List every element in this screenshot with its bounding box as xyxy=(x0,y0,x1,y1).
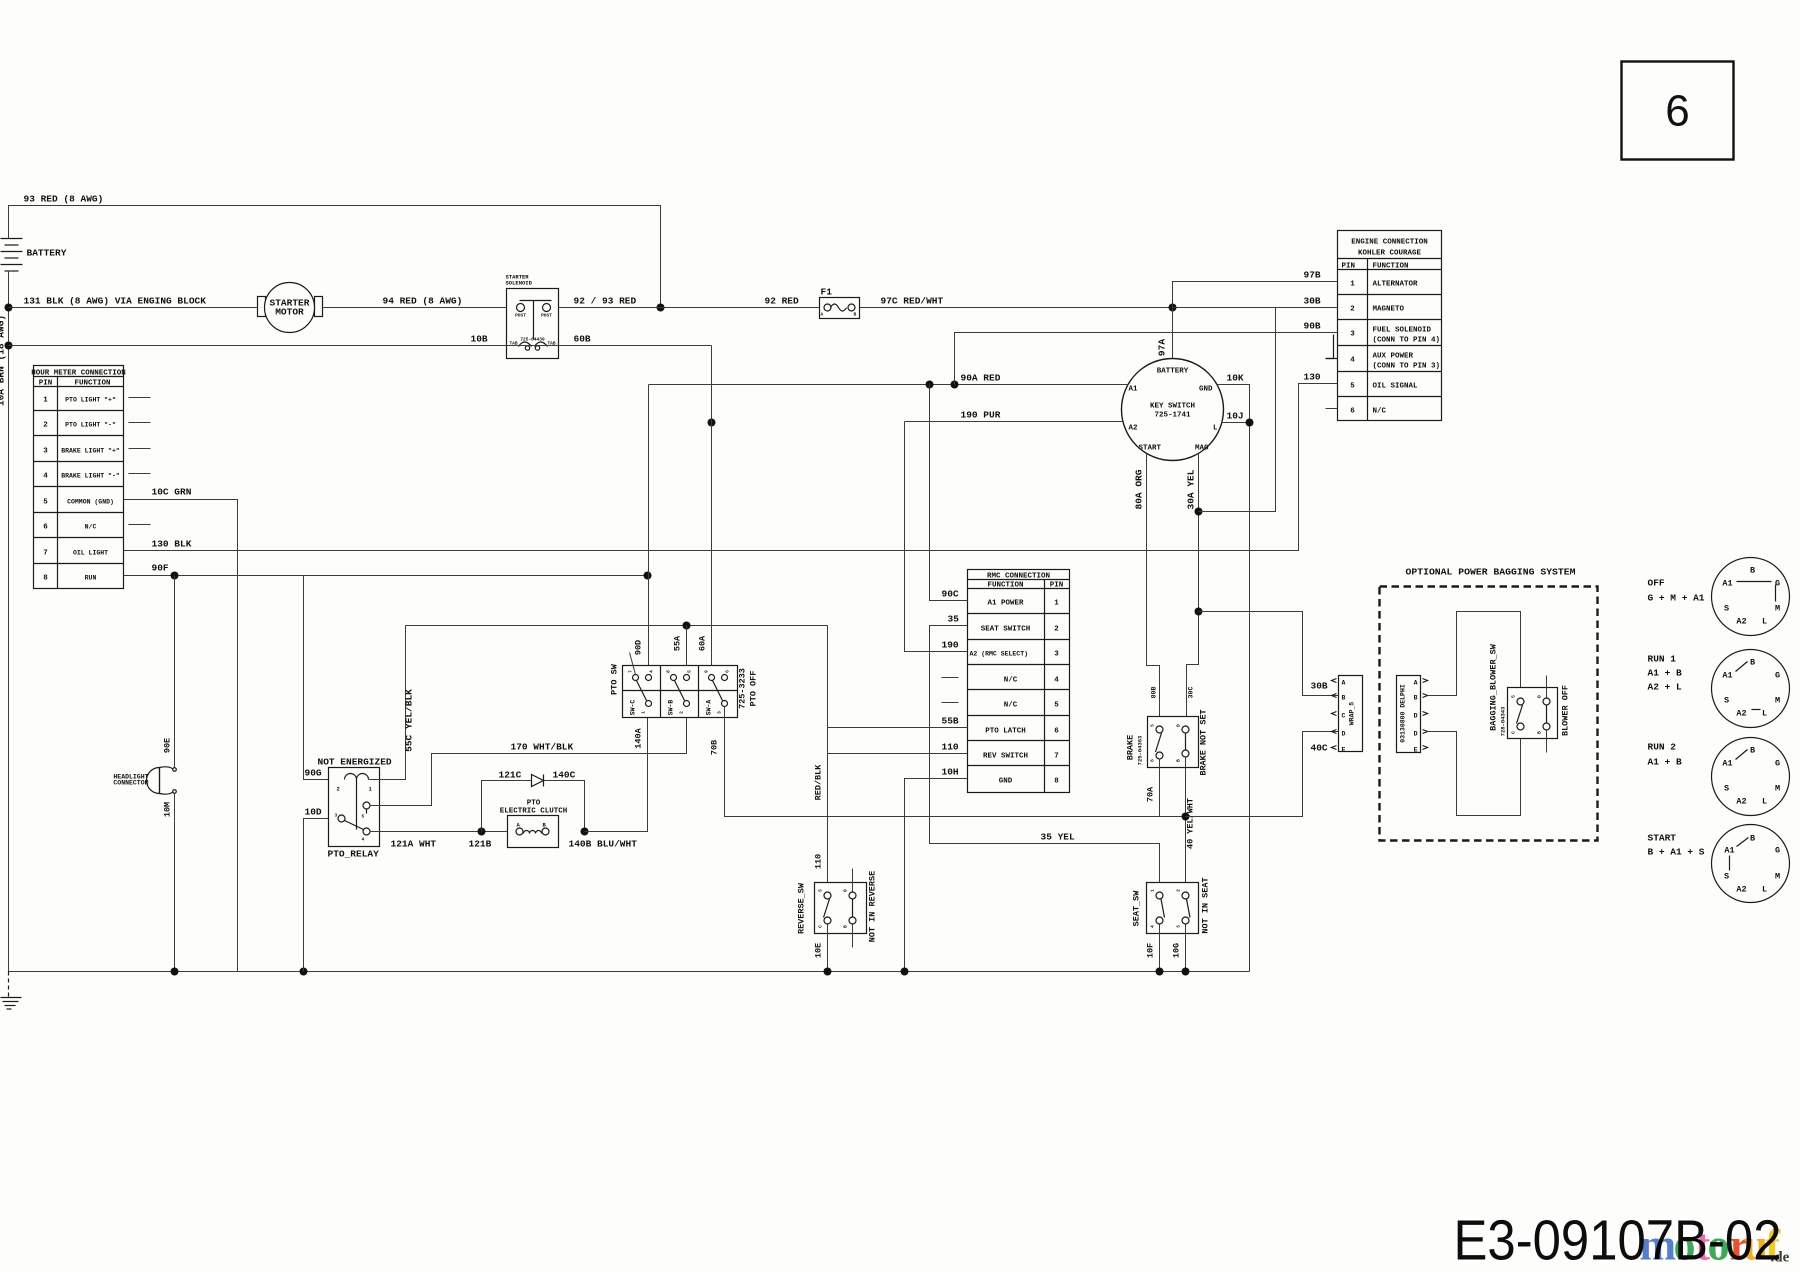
svg-text:A2 (RMC SELECT): A2 (RMC SELECT) xyxy=(970,651,1029,658)
svg-text:140B BLU/WHT: 140B BLU/WHT xyxy=(569,839,638,850)
svg-text:G + M + A1: G + M + A1 xyxy=(1648,593,1705,604)
wire 90C to RMC pin 1 xyxy=(930,385,968,601)
svg-text:97C RED/WHT: 97C RED/WHT xyxy=(881,296,944,307)
svg-text:2: 2 xyxy=(337,786,340,793)
wire 70B PTO switch pin 3 to brake switch xyxy=(710,707,1160,817)
wire 10G seat switch to ground rail xyxy=(1172,925,1186,972)
svg-text:30B: 30B xyxy=(1311,681,1328,692)
wire blower switch stub top xyxy=(1546,676,1548,698)
svg-text:G: G xyxy=(1775,671,1780,681)
switch S3 brake switch 725-04363 xyxy=(1126,709,1209,775)
svg-text:10F: 10F xyxy=(1146,943,1156,958)
svg-text:10A BRN (18 AWG): 10A BRN (18 AWG) xyxy=(0,315,7,406)
svg-text:725-3233: 725-3233 xyxy=(738,668,748,709)
wire RMC pin 4 N/C stub xyxy=(942,677,959,679)
svg-text:D: D xyxy=(843,889,849,892)
svg-text:5: 5 xyxy=(687,670,693,673)
wire bagging pin D to blower switch xyxy=(1428,731,1521,816)
svg-text:110: 110 xyxy=(942,742,959,753)
svg-text:C: C xyxy=(1511,731,1517,734)
svg-text:3: 3 xyxy=(1176,925,1182,928)
wire 10B battery negative to solenoid tab xyxy=(9,334,712,346)
key position diagram RUN 2 xyxy=(1648,738,1790,816)
key position diagram START xyxy=(1648,825,1790,903)
fuse F1 xyxy=(820,287,860,319)
svg-text:70A: 70A xyxy=(1146,786,1156,802)
svg-text:8: 8 xyxy=(666,670,672,673)
svg-text:SEAT_SW: SEAT_SW xyxy=(1132,890,1142,927)
motor M1 starter motor xyxy=(258,283,323,333)
svg-text:121A WHT: 121A WHT xyxy=(391,839,437,850)
wire ground rail xyxy=(9,971,1250,973)
svg-text:L: L xyxy=(1762,617,1767,627)
svg-text:1: 1 xyxy=(1150,889,1156,892)
node junction on 60A wire xyxy=(708,419,716,427)
wire 90E to headlight connector xyxy=(163,576,175,769)
svg-text:5: 5 xyxy=(1054,702,1059,710)
switch S1 key switch 725-1741 xyxy=(1122,359,1224,461)
svg-text:B: B xyxy=(854,312,857,318)
svg-text:40 YEL/WHT: 40 YEL/WHT xyxy=(1186,798,1196,849)
wire magneto branch to 30B line xyxy=(1199,308,1276,512)
svg-text:6: 6 xyxy=(1054,728,1059,736)
svg-text:10B: 10B xyxy=(471,334,488,345)
svg-text:D: D xyxy=(1414,731,1418,738)
svg-text:5: 5 xyxy=(362,814,365,820)
svg-text:m: m xyxy=(1640,1221,1677,1270)
svg-text:725-04363: 725-04363 xyxy=(1137,735,1144,765)
svg-text:D: D xyxy=(1176,724,1182,727)
svg-text:BLOWER OFF: BLOWER OFF xyxy=(1561,685,1571,736)
svg-text:2: 2 xyxy=(1054,626,1059,634)
svg-text:40C: 40C xyxy=(1311,743,1328,754)
svg-text:S: S xyxy=(1724,784,1729,794)
svg-text:A2: A2 xyxy=(1736,797,1746,807)
svg-text:110: 110 xyxy=(814,854,824,869)
svg-text:FUNCTION: FUNCTION xyxy=(987,582,1023,590)
pin 2 xyxy=(684,701,690,707)
wire 60A solenoid tab to PTO switch pin 9 xyxy=(698,346,712,675)
svg-text:AUX POWER: AUX POWER xyxy=(1373,353,1414,361)
key position diagram RUN 1 xyxy=(1648,650,1790,728)
svg-text:4: 4 xyxy=(43,473,48,481)
wire run1 A2 to L xyxy=(1752,709,1761,711)
wire 55C YEL/BLK relay coil to PTO latch line xyxy=(369,626,415,780)
svg-text:S: S xyxy=(1724,604,1729,614)
svg-text:90C: 90C xyxy=(942,589,959,600)
svg-text:PTO OFF: PTO OFF xyxy=(749,671,759,707)
svg-text:A: A xyxy=(1414,680,1418,687)
node 90E junction xyxy=(171,572,179,580)
solenoid L1 PTO electric clutch xyxy=(500,800,568,848)
node headlight ground junction xyxy=(171,968,179,976)
svg-text:90F: 90F xyxy=(152,563,169,574)
svg-text:COMMON (GND): COMMON (GND) xyxy=(67,499,114,506)
wire 10E reverse switch to ground rail xyxy=(814,925,828,972)
wire 170 WHT/BLK relay pin 5 to PTO switch pin 2 xyxy=(370,707,687,806)
svg-text:BAGGING_BLOWER_SW: BAGGING_BLOWER_SW xyxy=(1489,643,1499,731)
wire 90G 90 net to PTO relay coil xyxy=(304,576,345,780)
wire 30B branch to WRAP_5 pin B xyxy=(1199,612,1339,696)
svg-text:6: 6 xyxy=(43,524,48,532)
page number box 6 xyxy=(1622,62,1734,160)
svg-text:A2: A2 xyxy=(1736,885,1746,895)
svg-text:CONNECTOR: CONNECTOR xyxy=(113,780,148,787)
svg-text:35: 35 xyxy=(948,614,960,625)
svg-text:B: B xyxy=(1750,566,1755,576)
svg-text:START: START xyxy=(1139,445,1162,453)
svg-text:MOTOR: MOTOR xyxy=(275,307,304,318)
wire bagging pin B to blower switch xyxy=(1428,612,1521,698)
pin 5 xyxy=(684,675,690,681)
svg-text:A: A xyxy=(821,312,824,318)
node 121B junction xyxy=(478,828,486,836)
svg-text:10K: 10K xyxy=(1227,373,1244,384)
pin 1 xyxy=(646,701,652,707)
wire 10H RMC pin 8 to ground rail xyxy=(905,767,968,972)
svg-text:55B: 55B xyxy=(942,716,959,727)
svg-text:6: 6 xyxy=(725,670,731,673)
wire 110 RMC pin 7 to reverse switch xyxy=(814,626,968,892)
svg-text:D: D xyxy=(1414,713,1418,720)
wire run1 A1 to B xyxy=(1736,662,1748,672)
svg-text:9: 9 xyxy=(704,670,710,673)
wire reverse switch nc stub bottom xyxy=(852,925,854,948)
svg-text:5: 5 xyxy=(1150,724,1156,727)
svg-text:L: L xyxy=(1213,425,1218,433)
svg-text:130: 130 xyxy=(1304,372,1321,383)
wire 55A to PTO switch SW-B pin 5 xyxy=(673,626,687,675)
svg-text:REVERSE_SW: REVERSE_SW xyxy=(797,882,807,934)
pin 9 xyxy=(709,675,715,681)
node 140B junction xyxy=(581,828,589,836)
wire RMC pin 5 N/C stub xyxy=(942,702,959,704)
node 40 junction xyxy=(1182,813,1190,821)
svg-text:N/C: N/C xyxy=(1004,702,1018,710)
svg-text:140C: 140C xyxy=(553,770,576,781)
svg-text:7: 7 xyxy=(628,670,634,673)
wire 30A YEL key switch MAG to brake switch xyxy=(1186,454,1199,726)
wire blower switch stub bottom xyxy=(1546,731,1548,753)
svg-text:A1 POWER: A1 POWER xyxy=(987,600,1024,608)
svg-text:OPTIONAL POWER BAGGING SYSTEM: OPTIONAL POWER BAGGING SYSTEM xyxy=(1406,567,1576,578)
svg-text:A1: A1 xyxy=(1722,671,1732,681)
svg-text:4: 4 xyxy=(1054,677,1059,685)
wire 90A RED key switch A1 xyxy=(649,373,1129,385)
svg-text:BRAKE: BRAKE xyxy=(1126,735,1136,761)
wire 40C to WRAP_5 pin D xyxy=(1186,732,1339,817)
wire 90F hour meter run to 90 net xyxy=(124,563,648,576)
wire 55B RMC pin 6 to latch line xyxy=(828,716,968,728)
wire 140B BLU/WHT clutch to PTO switch pin 1 xyxy=(569,707,648,850)
svg-text:G: G xyxy=(1775,759,1780,769)
svg-text:90A RED: 90A RED xyxy=(961,373,1001,384)
svg-text:728-04343: 728-04343 xyxy=(1500,706,1507,736)
svg-text:92 RED: 92 RED xyxy=(765,296,800,307)
svg-text:10J: 10J xyxy=(1227,411,1244,422)
svg-text:FUEL SOLENOID: FUEL SOLENOID xyxy=(1373,327,1432,335)
svg-text:o: o xyxy=(1674,1221,1696,1270)
svg-text:SEAT SWITCH: SEAT SWITCH xyxy=(981,626,1031,634)
diode D1 flyback 121C 140C xyxy=(482,770,585,832)
svg-text:B: B xyxy=(1537,731,1543,734)
svg-text:30C: 30C xyxy=(1188,687,1195,699)
relay K1 starter solenoid xyxy=(506,274,559,359)
svg-text:A1: A1 xyxy=(1722,759,1732,769)
svg-text:.de: .de xyxy=(1771,1250,1790,1266)
connector J2 engine connection table KOHLER COURAGE xyxy=(1326,231,1442,421)
svg-text:M: M xyxy=(1775,604,1780,614)
svg-text:140A: 140A xyxy=(634,727,644,748)
svg-text:70B: 70B xyxy=(710,740,720,755)
svg-text:N/C: N/C xyxy=(1004,677,1018,685)
svg-text:A1: A1 xyxy=(1724,846,1734,856)
svg-text:725-1741: 725-1741 xyxy=(1154,412,1191,420)
wire 131 BLK (8 AWG) VIA ENGING BLOCK xyxy=(9,296,258,308)
svg-text:6: 6 xyxy=(1150,759,1156,762)
svg-text:WRAP_5: WRAP_5 xyxy=(1349,702,1356,726)
svg-text:N/C: N/C xyxy=(1373,408,1387,416)
node 30B junction to wrap connector xyxy=(1195,608,1203,616)
connector P3 headlight connector xyxy=(113,767,176,794)
key position diagram OFF xyxy=(1648,558,1790,636)
svg-text:35 YEL: 35 YEL xyxy=(1041,832,1076,843)
svg-text:PTO LIGHT "+": PTO LIGHT "+" xyxy=(65,397,116,404)
svg-text:80A ORG: 80A ORG xyxy=(1134,469,1145,509)
svg-text:POST: POST xyxy=(541,313,552,319)
svg-text:90G: 90G xyxy=(305,768,322,779)
connector P5 WRAP_5 xyxy=(1332,676,1363,754)
svg-text:10M: 10M xyxy=(163,802,173,817)
svg-text:E: E xyxy=(1342,747,1346,754)
svg-text:6: 6 xyxy=(1665,87,1689,136)
battery BT1 xyxy=(1,239,67,272)
svg-text:90E: 90E xyxy=(163,738,173,753)
svg-text:B + A1 + S: B + A1 + S xyxy=(1648,847,1705,858)
svg-text:MAG: MAG xyxy=(1195,445,1209,453)
svg-text:121B: 121B xyxy=(469,839,492,850)
svg-text:4: 4 xyxy=(649,670,655,673)
switch S2 PTO_SW 725-3233 xyxy=(610,653,759,718)
svg-text:1: 1 xyxy=(641,711,647,714)
wire 190 RMC pin 3 xyxy=(905,422,968,652)
svg-text:B: B xyxy=(1176,759,1182,762)
pin 4 xyxy=(646,675,652,681)
wire start A1 to S xyxy=(1729,856,1731,871)
svg-text:NOT ENERGIZED: NOT ENERGIZED xyxy=(318,757,392,768)
wire 80A ORG key switch START to brake switch xyxy=(1134,454,1160,726)
svg-text:4: 4 xyxy=(1350,357,1355,365)
svg-text:03130800 DELPHI: 03130800 DELPHI xyxy=(1400,684,1407,743)
svg-text:F1: F1 xyxy=(821,287,833,298)
wire 130 engine pin 5 to hour meter oil light xyxy=(124,372,1338,551)
pin 8 xyxy=(671,675,677,681)
svg-text:NOT IN SEAT: NOT IN SEAT xyxy=(1201,877,1211,933)
wire 97A 97B key switch battery to engine pin 1 xyxy=(1157,270,1338,359)
svg-text:B: B xyxy=(1750,834,1755,844)
pin 6 xyxy=(722,675,728,681)
svg-text:94 RED (8 AWG): 94 RED (8 AWG) xyxy=(383,296,463,307)
svg-text:A1: A1 xyxy=(1722,579,1732,589)
svg-text:B: B xyxy=(1750,746,1755,756)
svg-text:7: 7 xyxy=(43,550,48,558)
svg-text:PTO: PTO xyxy=(527,800,541,808)
svg-text:C: C xyxy=(1342,713,1346,720)
ground xyxy=(1,972,22,1010)
node battery negative junction xyxy=(5,304,13,312)
node 10G ground junction xyxy=(1182,968,1190,976)
svg-text:(CONN TO PIN 4): (CONN TO PIN 4) xyxy=(1373,337,1441,345)
svg-text:o: o xyxy=(1708,1221,1730,1270)
svg-text:131 BLK (8 AWG) VIA ENGING BLO: 131 BLK (8 AWG) VIA ENGING BLOCK xyxy=(24,296,207,307)
svg-text:PIN: PIN xyxy=(39,380,53,388)
svg-text:PTO LIGHT "-": PTO LIGHT "-" xyxy=(65,422,116,429)
wire 121A WHT relay pin 4 to clutch xyxy=(370,832,516,850)
node junction 92/93 RED xyxy=(657,304,665,312)
svg-text:7: 7 xyxy=(1054,753,1059,761)
svg-text:ALTERNATOR: ALTERNATOR xyxy=(1373,281,1419,289)
switch S4 seat switch xyxy=(1132,877,1211,933)
wire 10F seat switch to ground rail xyxy=(1146,925,1160,972)
svg-text:FUNCTION: FUNCTION xyxy=(74,380,110,388)
svg-text:OFF: OFF xyxy=(1648,578,1665,589)
svg-text:SW-C: SW-C xyxy=(630,700,637,716)
wire reverse switch nc stub top xyxy=(852,869,854,892)
wire 10C GRN hour meter common to ground rail xyxy=(124,487,238,972)
svg-text:START: START xyxy=(1648,833,1677,844)
svg-text:A2: A2 xyxy=(1736,709,1746,719)
svg-text:5: 5 xyxy=(818,889,824,892)
node 10E ground junction xyxy=(824,968,832,976)
svg-text:A1 + B: A1 + B xyxy=(1648,668,1683,679)
svg-text:GND: GND xyxy=(1199,386,1213,394)
wire 35 RMC pin 2 to seat switch xyxy=(930,614,1160,892)
svg-text:8: 8 xyxy=(43,575,48,583)
node 55A junction xyxy=(683,622,691,630)
switch S5 reverse switch xyxy=(797,869,878,948)
wire 190 PUR key switch A2 xyxy=(905,410,1124,422)
node 10D ground junction xyxy=(300,968,308,976)
svg-text:2: 2 xyxy=(43,422,48,430)
svg-text:8: 8 xyxy=(1054,778,1059,786)
svg-text:3: 3 xyxy=(43,448,48,456)
svg-text:80B: 80B xyxy=(1151,687,1158,699)
pin 7 xyxy=(633,675,639,681)
node 90C junction xyxy=(926,381,934,389)
svg-text:93 RED (8 AWG): 93 RED (8 AWG) xyxy=(24,194,104,205)
node 97A junction xyxy=(1169,304,1177,312)
svg-text:L: L xyxy=(1762,709,1767,719)
wire 70A brake switch to PTO switch xyxy=(1146,759,1160,817)
svg-text:3: 3 xyxy=(1350,331,1355,339)
svg-text:RUN: RUN xyxy=(85,575,97,582)
svg-text:S: S xyxy=(1724,872,1729,882)
switch S6 BAGGING_BLOWER_SW xyxy=(1489,643,1571,752)
svg-text:B: B xyxy=(843,925,849,928)
svg-text:3: 3 xyxy=(1054,651,1059,659)
svg-text:L: L xyxy=(1762,797,1767,807)
svg-text:D: D xyxy=(1342,731,1346,738)
svg-text:A1 + B: A1 + B xyxy=(1648,757,1683,768)
wire 40 YEL/WHT brake switch to seat switch xyxy=(1186,758,1196,892)
wire off A1 to G xyxy=(1737,581,1772,583)
svg-text:A2: A2 xyxy=(1129,425,1139,433)
wire run2 A1 to B xyxy=(1736,750,1748,760)
node 10B junction xyxy=(5,342,13,350)
svg-text:170 WHT/BLK: 170 WHT/BLK xyxy=(511,742,574,753)
svg-text:5: 5 xyxy=(43,499,48,507)
node 90B junction xyxy=(951,381,959,389)
svg-text:B: B xyxy=(1342,695,1346,702)
svg-text:190: 190 xyxy=(942,640,959,651)
node 30A junction to magneto xyxy=(1195,508,1203,516)
wire 10A BRN (18 AWG) battery negative left rail xyxy=(0,271,9,972)
svg-text:M: M xyxy=(1775,872,1780,882)
wire 10D PTO relay common to ground rail xyxy=(304,807,339,972)
wire 90D 90 net to PTO switch pin 4 xyxy=(634,385,649,675)
svg-text:121C: 121C xyxy=(499,770,522,781)
svg-text:1: 1 xyxy=(43,397,48,405)
svg-text:KOHLER COURAGE: KOHLER COURAGE xyxy=(1358,250,1422,258)
svg-text:5: 5 xyxy=(1511,695,1517,698)
svg-text:L: L xyxy=(1762,885,1767,895)
svg-text:M: M xyxy=(1775,696,1780,706)
svg-text:A2 + L: A2 + L xyxy=(1648,682,1683,693)
wire 55 latch line xyxy=(406,625,828,627)
wire 30B key battery line to engine pin 2 xyxy=(1173,296,1338,308)
wire pin 7 stub xyxy=(630,653,636,675)
wire 10M headlight to ground rail xyxy=(163,793,175,972)
svg-text:MAGNETO: MAGNETO xyxy=(1373,306,1405,314)
svg-text:(CONN TO PIN 3): (CONN TO PIN 3) xyxy=(1373,363,1441,371)
svg-text:OIL LIGHT: OIL LIGHT xyxy=(73,550,108,557)
wire 90B to engine pin 3 xyxy=(955,321,1339,385)
svg-text:2: 2 xyxy=(679,711,685,714)
svg-text:G: G xyxy=(1775,846,1780,856)
svg-text:130 BLK: 130 BLK xyxy=(152,539,192,550)
svg-text:97A: 97A xyxy=(1157,339,1168,356)
svg-text:ENGINE CONNECTION: ENGINE CONNECTION xyxy=(1351,239,1428,247)
svg-text:5: 5 xyxy=(1350,383,1355,391)
svg-text:REV SWITCH: REV SWITCH xyxy=(983,753,1028,761)
wire 93 RED (8 AWG) battery positive to junction xyxy=(9,194,661,308)
svg-text:BATTERY: BATTERY xyxy=(27,248,67,259)
wire off G to M xyxy=(1775,585,1777,602)
wire 97C RED/WHT fuse to key switch battery node xyxy=(860,296,1173,308)
optional power bagging system enclosure xyxy=(1380,567,1598,841)
svg-text:u: u xyxy=(1744,1221,1768,1270)
wire 10K key switch GND to ground rail xyxy=(1217,373,1250,972)
watermark motoruf.de xyxy=(1640,1221,1790,1270)
svg-text:55C YEL/BLK: 55C YEL/BLK xyxy=(404,689,415,752)
svg-text:C: C xyxy=(818,925,824,928)
svg-text:10G: 10G xyxy=(1172,943,1182,958)
blade SW-A xyxy=(713,681,723,701)
svg-text:B: B xyxy=(1414,695,1418,702)
svg-text:4: 4 xyxy=(1150,925,1156,928)
svg-text:PIN: PIN xyxy=(1050,582,1064,590)
svg-text:RUN 1: RUN 1 xyxy=(1648,654,1677,665)
svg-text:BRAKE LIGHT "+": BRAKE LIGHT "+" xyxy=(61,448,120,455)
svg-text:NOT IN REVERSE: NOT IN REVERSE xyxy=(868,871,878,942)
svg-text:A2: A2 xyxy=(1736,617,1746,627)
svg-text:SW-A: SW-A xyxy=(706,700,713,716)
pin 3 xyxy=(722,701,728,707)
svg-text:GND: GND xyxy=(999,778,1013,786)
svg-text:3: 3 xyxy=(717,711,723,714)
connector J3 RMC connection table xyxy=(968,570,1070,793)
svg-text:M: M xyxy=(1775,784,1780,794)
